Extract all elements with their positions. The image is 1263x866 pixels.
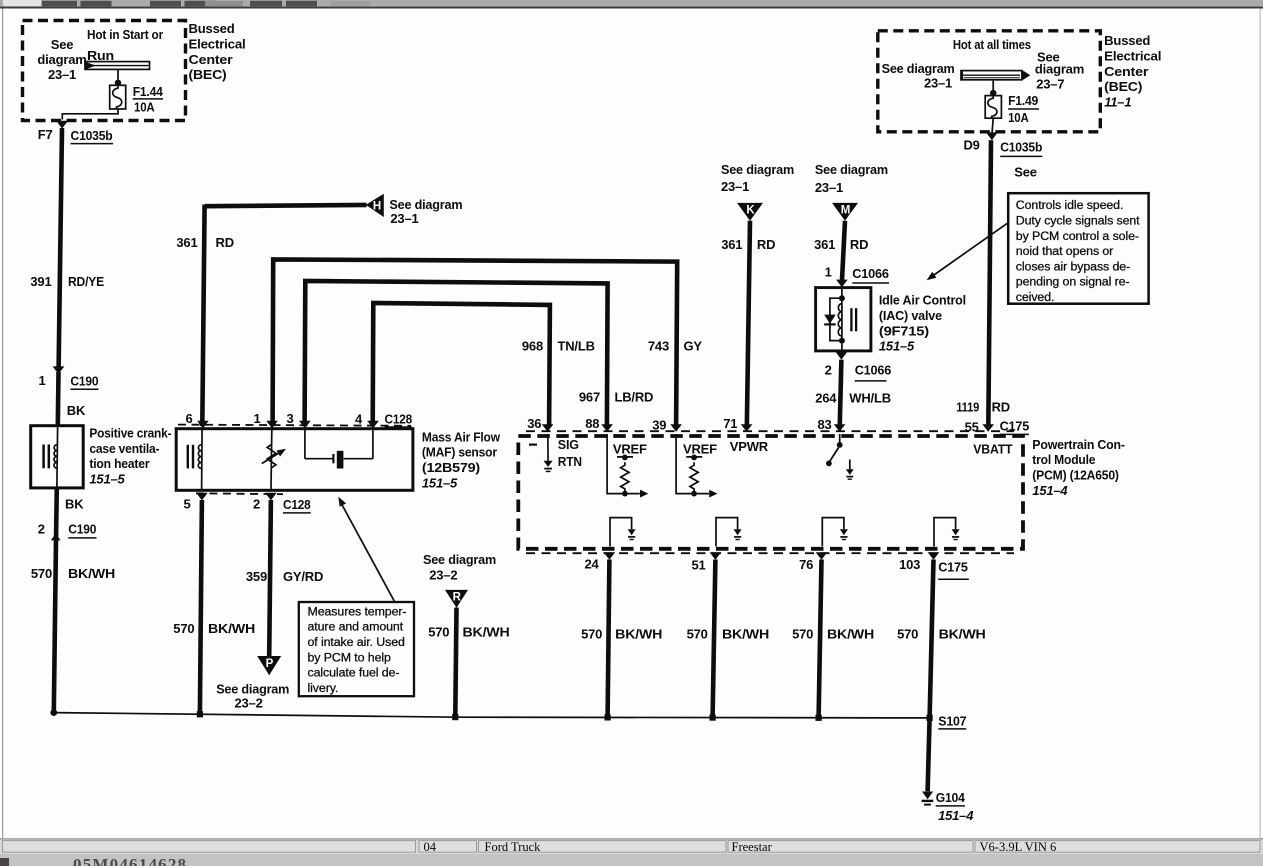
svg-text:RD/YE: RD/YE bbox=[68, 274, 104, 289]
svg-text:D9: D9 bbox=[963, 138, 979, 153]
toolbar strip top bbox=[0, 0, 1263, 9]
svg-text:BK/WH: BK/WH bbox=[827, 627, 874, 642]
svg-text:(BEC): (BEC) bbox=[1104, 79, 1142, 94]
svg-text:570: 570 bbox=[581, 627, 602, 642]
label 1119 RD bbox=[956, 400, 1010, 415]
svg-text:570: 570 bbox=[428, 624, 449, 639]
svg-text:F1.44: F1.44 bbox=[133, 84, 164, 99]
wire fuse to F7 exit bbox=[62, 109, 118, 120]
connector C1066 pin 2 arrow bbox=[836, 352, 848, 360]
label 2 C190 bbox=[38, 522, 97, 538]
svg-text:391: 391 bbox=[30, 274, 51, 289]
svg-text:C175: C175 bbox=[938, 560, 968, 575]
svg-text:C1035b: C1035b bbox=[71, 128, 113, 143]
svg-text:Electrical: Electrical bbox=[1104, 49, 1161, 64]
svg-text:See diagram: See diagram bbox=[423, 552, 496, 567]
wire bus to fuse F1.49 bbox=[990, 80, 996, 96]
svg-text:C1066: C1066 bbox=[855, 363, 892, 378]
svg-text:(9F715): (9F715) bbox=[879, 323, 929, 338]
PCM switch pin 83 bbox=[826, 434, 854, 479]
label See diagram 23-1 (K) bbox=[721, 162, 794, 194]
connector C175 dashed line bottom bbox=[526, 552, 1014, 554]
wire BK lower bbox=[54, 488, 59, 540]
wire 359 GY/RD from pin 2 bbox=[269, 500, 271, 656]
svg-text:See diagram: See diagram bbox=[389, 197, 462, 212]
svg-text:4: 4 bbox=[355, 412, 363, 427]
wire 264 WH/LB bbox=[840, 360, 842, 428]
svg-text:noid that opens or: noid that opens or bbox=[1016, 244, 1113, 258]
svg-text:23–1: 23–1 bbox=[390, 211, 418, 226]
positive crankcase ventilation heater box bbox=[31, 426, 83, 488]
label Idle Air Control (IAC) valve bbox=[879, 293, 966, 354]
PCM VREF resistor pin 88 bbox=[607, 434, 648, 498]
svg-text:Center: Center bbox=[1104, 64, 1148, 79]
wire 968 TN/LB inner U bbox=[373, 303, 550, 426]
connector C1066 pin 1 arrow bbox=[836, 280, 848, 288]
labels pins 5 2 C128 bbox=[183, 497, 310, 513]
svg-text:Electrical: Electrical bbox=[189, 37, 246, 52]
svg-text:RD: RD bbox=[850, 237, 868, 252]
svg-text:967: 967 bbox=[579, 390, 600, 405]
svg-text:ature and amount: ature and amount bbox=[308, 620, 404, 634]
svg-text:of intake air. Used: of intake air. Used bbox=[308, 635, 405, 649]
svg-text:570: 570 bbox=[792, 627, 813, 642]
svg-text:1: 1 bbox=[825, 265, 832, 280]
svg-text:RTN: RTN bbox=[558, 454, 582, 469]
svg-text:RD: RD bbox=[992, 400, 1010, 415]
svg-text:BK/WH: BK/WH bbox=[722, 627, 769, 642]
svg-text:C190: C190 bbox=[70, 374, 98, 389]
labels pins 6 1 3 4 C128 bbox=[185, 411, 412, 427]
svg-text:tion heater: tion heater bbox=[89, 456, 149, 471]
svg-text:Duty cycle signals sent: Duty cycle signals sent bbox=[1016, 214, 1140, 228]
wire S107 to G104 bbox=[928, 718, 930, 791]
label Mass Air Flow (MAF) sensor bbox=[422, 429, 501, 490]
svg-text:R: R bbox=[453, 592, 462, 604]
svg-text:151–5: 151–5 bbox=[879, 339, 915, 354]
label G104 151-4 bbox=[936, 790, 975, 823]
wire 1119 RD from D9 to pin 55 bbox=[988, 140, 991, 428]
svg-text:55: 55 bbox=[965, 420, 979, 435]
svg-text:calculate fuel de-: calculate fuel de- bbox=[308, 666, 400, 680]
svg-text:V6-3.9L VIN 6: V6-3.9L VIN 6 bbox=[980, 840, 1057, 854]
fuse F1.49 10A bbox=[985, 93, 1039, 125]
svg-text:Powertrain Con-: Powertrain Con- bbox=[1032, 437, 1125, 452]
svg-text:151–4: 151–4 bbox=[938, 808, 974, 823]
PCM VREF resistor pin 39 bbox=[676, 434, 717, 498]
label Bussed Electrical Center (BEC) left bbox=[189, 21, 246, 82]
off-page connector K bbox=[737, 203, 763, 221]
svg-text:BK/WH: BK/WH bbox=[208, 621, 255, 636]
right page edge bbox=[1260, 9, 1261, 839]
svg-text:by PCM to help: by PCM to help bbox=[308, 650, 392, 664]
svg-text:C128: C128 bbox=[385, 411, 413, 426]
svg-text:(PCM) (12A650): (PCM) (12A650) bbox=[1032, 468, 1119, 483]
svg-text:1119: 1119 bbox=[956, 400, 979, 415]
IAC valve box bbox=[816, 288, 871, 351]
svg-text:2: 2 bbox=[825, 363, 832, 378]
svg-text:(IAC) valve: (IAC) valve bbox=[879, 308, 942, 323]
label 361 RD (K) bbox=[721, 237, 775, 252]
bus junction nodes bbox=[50, 709, 932, 721]
connector C190 pin 1 arrow bbox=[53, 366, 65, 374]
MAF variable resistor bbox=[262, 430, 286, 489]
svg-text:See: See bbox=[51, 37, 74, 52]
PCM ground hook pin 51 bbox=[716, 518, 742, 547]
svg-text:04: 04 bbox=[424, 840, 437, 854]
svg-text:23–1: 23–1 bbox=[721, 179, 749, 194]
svg-text:(MAF) sensor: (MAF) sensor bbox=[422, 445, 497, 460]
svg-text:361: 361 bbox=[814, 237, 835, 252]
svg-text:(12B579): (12B579) bbox=[422, 460, 480, 475]
svg-text:6: 6 bbox=[185, 411, 192, 426]
svg-text:BK/WH: BK/WH bbox=[615, 627, 662, 642]
svg-text:1: 1 bbox=[253, 411, 260, 426]
MAF heater element bbox=[188, 430, 202, 489]
wire 570 BK/WH left bbox=[54, 540, 56, 713]
note box: Controls idle speed bbox=[1008, 193, 1148, 304]
ground G104 bbox=[922, 792, 934, 805]
label: Hot in Start or Run bbox=[87, 27, 163, 63]
bottom grey strip bbox=[0, 854, 1263, 866]
svg-text:88: 88 bbox=[585, 416, 599, 431]
svg-text:570: 570 bbox=[897, 627, 918, 642]
label 570 BK/WH left bbox=[31, 566, 115, 581]
svg-text:See diagram: See diagram bbox=[882, 61, 955, 76]
svg-text:5: 5 bbox=[183, 497, 190, 512]
svg-text:S107: S107 bbox=[938, 714, 966, 729]
svg-text:F1.49: F1.49 bbox=[1008, 93, 1038, 108]
svg-text:Controls idle speed.: Controls idle speed. bbox=[1016, 198, 1124, 212]
MAF sensor box bbox=[176, 429, 413, 491]
svg-text:151–4: 151–4 bbox=[1032, 483, 1068, 498]
connector C128 dashed line bottom bbox=[196, 492, 283, 495]
svg-text:05M04614628: 05M04614628 bbox=[73, 855, 187, 866]
svg-text:See diagram: See diagram bbox=[216, 681, 289, 696]
svg-text:570: 570 bbox=[173, 621, 194, 636]
wire bus to fuse F1.44 bbox=[115, 69, 121, 86]
label S107 bbox=[938, 714, 966, 729]
svg-text:36: 36 bbox=[527, 416, 541, 431]
svg-text:23–7: 23–7 bbox=[1036, 77, 1064, 92]
svg-text:See: See bbox=[1014, 165, 1037, 180]
svg-text:23–1: 23–1 bbox=[924, 76, 952, 91]
PCM dashed box bbox=[518, 436, 1023, 549]
label 264 WH/LB bbox=[815, 391, 891, 406]
label 968 TN/LB bbox=[522, 339, 595, 354]
label 570 BK/WH (R) bbox=[428, 624, 509, 639]
wire 361 RD from K to pin 71 bbox=[747, 221, 750, 428]
labels 570 BK/WH row bbox=[581, 627, 985, 642]
svg-text:151–5: 151–5 bbox=[422, 475, 458, 490]
svg-text:3: 3 bbox=[286, 411, 293, 426]
BEC box left (dashed) bbox=[23, 21, 186, 121]
label: See diagram 23-1 (left BEC) bbox=[37, 37, 86, 82]
arrow note box to MAF bbox=[338, 497, 394, 602]
PCM ground hook pin 24 bbox=[610, 518, 636, 547]
svg-text:23–2: 23–2 bbox=[429, 568, 457, 583]
svg-text:GY/RD: GY/RD bbox=[283, 569, 323, 584]
svg-text:by PCM control a sole-: by PCM control a sole- bbox=[1016, 229, 1139, 243]
label See diagram 23-2 (P) bbox=[216, 681, 289, 710]
svg-text:Freestar: Freestar bbox=[732, 840, 773, 854]
wire 570 BK/WH pin 76 bbox=[819, 560, 822, 718]
off-page connector M bbox=[832, 203, 858, 221]
svg-text:C128: C128 bbox=[283, 497, 311, 512]
wire 570 BK/WH pin 103 bbox=[930, 560, 934, 719]
svg-text:P: P bbox=[266, 658, 274, 670]
svg-text:570: 570 bbox=[31, 566, 52, 581]
svg-text:Positive crank-: Positive crank- bbox=[89, 426, 171, 441]
ground bus wire S107 bbox=[54, 713, 930, 718]
svg-text:39: 39 bbox=[652, 417, 666, 432]
svg-text:RD: RD bbox=[757, 237, 775, 252]
wire BK to heater bbox=[55, 372, 60, 426]
wire 361 RD from M bbox=[842, 221, 845, 281]
BEC box right (dashed) bbox=[878, 31, 1101, 132]
svg-text:VBATT: VBATT bbox=[973, 442, 1012, 457]
svg-text:11–1: 11–1 bbox=[1104, 94, 1131, 109]
svg-text:(BEC): (BEC) bbox=[189, 67, 227, 82]
connector C175 dashed line top bbox=[526, 430, 1014, 432]
svg-text:K: K bbox=[746, 205, 755, 217]
svg-text:diagram: diagram bbox=[1035, 62, 1084, 77]
svg-text:361: 361 bbox=[721, 237, 742, 252]
labels pins 36 88 39 71 83 55 C175 bbox=[527, 416, 1029, 435]
svg-text:C1035b: C1035b bbox=[1000, 140, 1042, 155]
label See diagram 23-2 (R) bbox=[423, 552, 496, 583]
wire 570 BK/WH pin 51 bbox=[713, 560, 716, 718]
svg-text:51: 51 bbox=[691, 557, 705, 572]
svg-text:103: 103 bbox=[899, 557, 920, 572]
svg-text:10A: 10A bbox=[134, 100, 155, 115]
svg-text:case ventila-: case ventila- bbox=[89, 441, 159, 456]
label 1 C1066 bbox=[825, 265, 889, 283]
svg-text:C1066: C1066 bbox=[852, 266, 889, 281]
svg-text:Bussed: Bussed bbox=[1104, 33, 1150, 48]
labels pins 24 51 76 103 C175 bbox=[584, 556, 968, 579]
wire 570 BK/WH from pin 5 bbox=[200, 500, 202, 713]
label 2 C1066 bbox=[825, 363, 892, 381]
svg-text:Center: Center bbox=[189, 52, 233, 67]
off-page connector R bbox=[445, 590, 468, 608]
svg-text:10A: 10A bbox=[1008, 110, 1029, 125]
svg-text:BK/WH: BK/WH bbox=[463, 624, 510, 639]
label Bussed Electrical Center (BEC) 11-1 bbox=[1104, 33, 1161, 109]
connector arrow D9 bbox=[986, 132, 998, 140]
svg-text:23–2: 23–2 bbox=[235, 696, 263, 711]
note box: Measures temperature bbox=[299, 602, 414, 696]
svg-text:F7: F7 bbox=[38, 127, 53, 142]
svg-text:LB/RD: LB/RD bbox=[615, 390, 654, 405]
label 1 C190 bbox=[38, 373, 98, 389]
svg-text:H: H bbox=[373, 201, 381, 213]
svg-text:G104: G104 bbox=[936, 790, 966, 805]
label 967 LB/RD bbox=[579, 390, 653, 405]
svg-text:BK/WH: BK/WH bbox=[68, 566, 115, 581]
svg-text:Idle Air Control: Idle Air Control bbox=[879, 293, 966, 308]
svg-text:Ford Truck: Ford Truck bbox=[485, 840, 542, 854]
svg-text:151–5: 151–5 bbox=[89, 472, 125, 487]
svg-text:361: 361 bbox=[176, 235, 197, 250]
svg-text:Measures temper-: Measures temper- bbox=[308, 604, 407, 618]
wire 361 RD to H bbox=[202, 205, 366, 427]
off-page connector H bbox=[366, 194, 384, 217]
svg-text:ceived.: ceived. bbox=[1016, 290, 1055, 304]
label 359 GY/RD bbox=[246, 569, 323, 584]
svg-text:trol Module: trol Module bbox=[1032, 452, 1095, 467]
label 570 BK/WH pin5 bbox=[173, 621, 255, 636]
label 391 RD/YE bbox=[30, 274, 104, 289]
connector arrow F7 bbox=[56, 121, 68, 129]
pin arrows out of PCM bottom bbox=[604, 552, 940, 560]
label Powertrain Control Module bbox=[1032, 437, 1125, 498]
pin arrows into MAF top bbox=[197, 421, 379, 429]
svg-text:diagram: diagram bbox=[37, 52, 86, 67]
svg-text:2: 2 bbox=[38, 522, 45, 537]
pin arrows out of MAF bottom bbox=[196, 493, 277, 501]
svg-text:See diagram: See diagram bbox=[721, 162, 794, 177]
label See diagram 23-1 (right BEC) bbox=[882, 61, 955, 91]
svg-text:C190: C190 bbox=[68, 522, 96, 537]
svg-text:closes air bypass de-: closes air bypass de- bbox=[1016, 259, 1130, 273]
svg-text:BK: BK bbox=[67, 403, 86, 418]
svg-text:C175: C175 bbox=[1000, 419, 1030, 434]
left page edge bbox=[2, 9, 3, 839]
svg-text:743: 743 bbox=[648, 339, 669, 354]
svg-text:BK/WH: BK/WH bbox=[939, 627, 986, 642]
label See diagram 23-1 (M) bbox=[815, 162, 888, 195]
label Positive crankcase ventilation heater 151-5 bbox=[89, 426, 171, 487]
svg-text:SIG: SIG bbox=[558, 437, 579, 452]
bus bar symbol (right BEC) bbox=[961, 70, 1030, 81]
svg-text:359: 359 bbox=[246, 569, 267, 584]
label 743 GY bbox=[648, 339, 703, 354]
svg-text:WH/LB: WH/LB bbox=[849, 391, 891, 406]
svg-text:2: 2 bbox=[253, 497, 260, 512]
wire 570 BK/WH from R bbox=[455, 608, 456, 715]
svg-text:GY: GY bbox=[684, 339, 703, 354]
svg-text:Bussed: Bussed bbox=[189, 21, 235, 36]
connector C128 dashed line top bbox=[178, 425, 411, 426]
svg-text:livery.: livery. bbox=[308, 681, 339, 695]
wire 967 LB/RD middle U bbox=[305, 281, 608, 426]
svg-text:pending on signal re-: pending on signal re- bbox=[1016, 275, 1130, 289]
svg-text:BK: BK bbox=[65, 496, 84, 511]
svg-text:76: 76 bbox=[799, 557, 813, 572]
wire 743 GY outer U bbox=[273, 259, 678, 426]
fuse F1.44 10A bbox=[110, 84, 164, 115]
pin arrows into PCM top bbox=[542, 424, 994, 432]
PCM ground hook pin 103 bbox=[934, 518, 960, 547]
svg-text:Mass Air Flow: Mass Air Flow bbox=[422, 429, 501, 444]
svg-text:RD: RD bbox=[216, 235, 234, 250]
label See diagram 23-7 bbox=[1035, 50, 1084, 92]
svg-text:M: M bbox=[841, 205, 850, 217]
wire 570 BK/WH pin 24 bbox=[608, 560, 610, 717]
svg-text:1: 1 bbox=[38, 373, 45, 388]
svg-text:VREF: VREF bbox=[613, 442, 647, 457]
svg-text:570: 570 bbox=[687, 627, 708, 642]
svg-text:23–1: 23–1 bbox=[815, 180, 843, 195]
svg-text:TN/LB: TN/LB bbox=[558, 339, 595, 354]
bus bar symbol (left BEC) bbox=[85, 62, 150, 70]
svg-text:23–1: 23–1 bbox=[48, 67, 76, 82]
label 361 RD (M) bbox=[814, 237, 868, 252]
status bar bbox=[0, 839, 1263, 854]
wire fuse to D9 exit bbox=[992, 118, 993, 133]
label D9 / C1035b bbox=[963, 138, 1042, 157]
off-page connector P bbox=[257, 656, 281, 675]
svg-text:See diagram: See diagram bbox=[815, 162, 888, 177]
svg-text:Hot in Start or: Hot in Start or bbox=[87, 27, 163, 42]
PCM SIG RTN ground bbox=[529, 434, 582, 471]
svg-text:71: 71 bbox=[723, 416, 737, 431]
wire 391 RD/YE bbox=[59, 128, 62, 368]
PCM ground hook pin 76 bbox=[822, 518, 848, 547]
MAF sensing element pins 3-4 bbox=[305, 430, 373, 469]
svg-text:24: 24 bbox=[584, 556, 599, 571]
svg-text:83: 83 bbox=[817, 417, 831, 432]
svg-text:VPWR: VPWR bbox=[730, 439, 769, 454]
svg-text:264: 264 bbox=[815, 391, 837, 406]
svg-text:VREF: VREF bbox=[683, 441, 717, 456]
connector C190 pin 2 arrow bbox=[51, 534, 61, 541]
svg-text:968: 968 bbox=[522, 339, 543, 354]
IAC solenoid internals bbox=[824, 289, 856, 350]
arrow note box to IAC bbox=[927, 223, 1008, 280]
label F7 / C1035b bbox=[38, 127, 113, 144]
label 361 RD (H wire) bbox=[176, 235, 233, 250]
svg-text:Hot at all times: Hot at all times bbox=[953, 37, 1031, 52]
label See diagram 23-1 (H) bbox=[389, 197, 462, 226]
